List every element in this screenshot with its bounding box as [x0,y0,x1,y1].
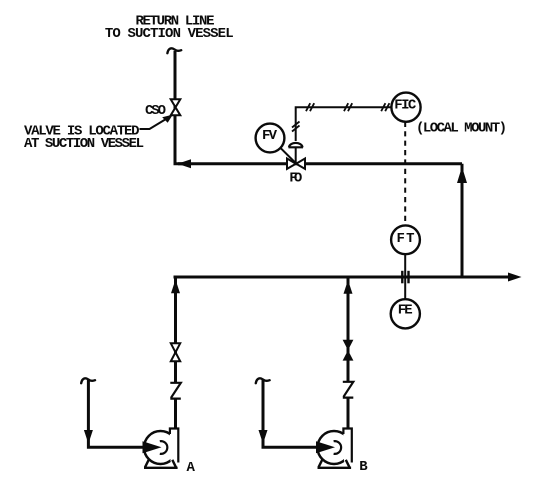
pump B suction: break curl at top [256,378,270,383]
pump B base [318,460,352,468]
pump A suction: break curl at top [81,378,95,383]
wire: FT down through orifice to FE [404,254,406,299]
orifice flange taps [402,271,408,284]
wire: pump A discharge riser [174,277,177,429]
svg-text:FO: FO [289,171,302,187]
svg-text:FV: FV [262,128,278,144]
flow arrow up on riser B [344,280,353,294]
svg-text:FIC: FIC [394,98,417,114]
pump B discharge chimney [343,429,351,463]
instrument FIC [391,93,420,122]
control valve body (hollow bowtie) [287,159,305,169]
wire: recirculation riser right [461,164,464,277]
svg-text:CSO: CSO [145,103,166,119]
check valve on riser B (solid) [343,340,354,361]
pneumatic signal line from actuator to FIC [296,107,392,141]
wire: pump B suction line [263,380,318,447]
svg-text:FE: FE [398,302,413,318]
pump B casing circle [318,431,351,464]
svg-text:FT: FT [397,231,415,247]
flow arrow right at header end [508,273,522,282]
wire: return line vertical [175,51,186,164]
leader arrow pointing to CSO valve [140,115,173,129]
wire: pump B discharge riser [347,277,350,429]
actuator diaphragm dome [289,143,304,147]
flow arrow into pump A [143,441,162,453]
pneumatic slash marks on vertical segment [292,122,300,132]
actuator stem [295,147,297,164]
dashed signal line FIC to FT [404,122,406,226]
line break symbol on riser B [343,382,354,398]
pipe break curl at top of return line [167,48,181,53]
flow arrow into pump B [316,441,335,453]
pneumatic slash marks on horizontal segment [306,103,389,111]
svg-text:TO SUCTION VESSEL: TO SUCTION VESSEL [105,26,234,42]
flow arrow down on suction A [84,430,93,444]
svg-text:AT SUCTION VESSEL: AT SUCTION VESSEL [24,136,144,152]
wire: FV to valve stem diagonal [281,148,296,163]
pump A discharge chimney [170,429,178,463]
pump A base [144,460,178,468]
instrument FE [391,299,420,328]
svg-text:(LOCAL MOUNT): (LOCAL MOUNT) [416,120,507,136]
pump B impeller curl [334,441,342,454]
flow arrow down on suction B [259,430,268,444]
flow arrow pointing left on recirculation line [178,159,192,168]
instrument FT [391,225,420,254]
wire: discharge header [174,276,514,279]
svg-text:A: A [187,460,196,476]
instrument FV [256,124,285,153]
pump A casing circle [144,431,177,464]
valve CSO (hollow gate valve, vertical) [171,99,181,115]
wire: pump A suction line [88,380,145,447]
line break symbol on riser A [170,383,181,399]
note: RETURN LINE TO SUCTION VESSEL [105,14,234,42]
note: VALVE IS LOCATED AT SUCTION VESSEL [24,124,144,152]
flow arrow up on riser A [171,280,180,294]
svg-text:B: B [359,459,368,475]
pump A impeller curl [160,441,168,454]
flow arrow up on recirculation riser [457,167,467,183]
wire: recirculation line horizontal [178,162,462,165]
valve on riser A (hollow gate valve) [171,343,180,361]
